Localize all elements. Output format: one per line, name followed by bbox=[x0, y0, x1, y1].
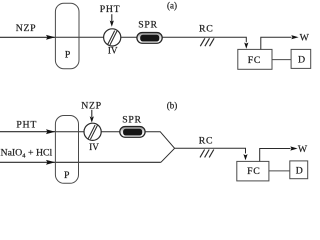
svg-text:SPR: SPR bbox=[122, 114, 142, 125]
svg-text:P: P bbox=[64, 170, 70, 181]
svg-text:SPR: SPR bbox=[138, 20, 158, 31]
pump P (a) bbox=[55, 3, 79, 69]
wire: FC to waste W (a) bbox=[261, 37, 292, 49]
detector D (b) bbox=[290, 161, 308, 179]
svg-text:PHT: PHT bbox=[100, 4, 121, 15]
svg-text:(b): (b) bbox=[167, 100, 178, 110]
wire: PHT inlet to pump P (b) bbox=[0, 131, 55, 133]
flow cell FC (b) bbox=[237, 161, 269, 181]
svg-text:IV: IV bbox=[108, 46, 118, 56]
svg-text:NaIO4 + HCl: NaIO4 + HCl bbox=[1, 148, 53, 160]
wire: NZP inlet to pump P (a) bbox=[0, 36, 55, 38]
svg-text:NZP: NZP bbox=[81, 100, 102, 111]
arrowhead into pump P (a) bbox=[46, 35, 55, 40]
wire: oxidant line to merge node (b) bbox=[161, 148, 175, 162]
svg-text:D: D bbox=[296, 166, 303, 177]
wire: FC to waste W (b) bbox=[260, 149, 291, 162]
injection valve IV (b) bbox=[84, 123, 101, 140]
svg-text:PHT: PHT bbox=[16, 119, 37, 130]
reaction coil hatch (b) bbox=[200, 150, 205, 158]
wire: NaIO4+HCl inlet to pump P (b) bbox=[0, 161, 55, 163]
solid-phase reactor SPR (b) bbox=[120, 127, 145, 138]
arrowhead into flow cell FC (a) bbox=[244, 43, 248, 49]
wire: SPR to merge node (b) bbox=[145, 132, 175, 149]
svg-text:(a): (a) bbox=[167, 1, 177, 11]
arrowhead into pump P line2 (b) bbox=[46, 160, 55, 165]
svg-text:D: D bbox=[298, 55, 305, 66]
svg-text:FC: FC bbox=[248, 55, 261, 66]
wire: oxidant line through pump (b) bbox=[55, 161, 161, 163]
arrow: PHT injection into valve IV (a) bbox=[111, 14, 113, 21]
arrowhead to waste (a) bbox=[291, 35, 298, 39]
arrowhead into pump P line1 (b) bbox=[46, 129, 55, 134]
wire: valve IV to SPR (b) bbox=[101, 131, 120, 133]
wire: FC to detector D (a) bbox=[272, 59, 291, 61]
flow cell FC (a) bbox=[238, 49, 272, 69]
injection valve IV (a) bbox=[104, 29, 121, 46]
wire: merge node to flow cell corner (b) bbox=[175, 148, 246, 153]
svg-text:RC: RC bbox=[199, 24, 213, 35]
svg-text:W: W bbox=[300, 33, 310, 44]
wire: FC to detector D (b) bbox=[269, 170, 290, 172]
arrowhead into flow cell FC (b) bbox=[243, 154, 247, 160]
arrow: NZP injection into valve IV (b) bbox=[91, 110, 93, 117]
svg-text:IV: IV bbox=[89, 142, 99, 152]
detector D (a) bbox=[291, 49, 311, 68]
svg-text:P: P bbox=[65, 49, 71, 60]
wire: through pump to valve IV (a) bbox=[55, 36, 104, 38]
svg-text:FC: FC bbox=[247, 166, 260, 177]
pump P (b) bbox=[55, 116, 78, 184]
wire: valve IV to SPR (a) bbox=[121, 36, 137, 38]
svg-text:W: W bbox=[298, 144, 308, 155]
svg-text:RC: RC bbox=[199, 136, 213, 147]
reaction coil hatch (a) bbox=[200, 38, 205, 46]
wire: SPR to flow cell corner (a) bbox=[162, 37, 246, 42]
wire: through pump to valve IV (b) bbox=[55, 131, 85, 133]
solid-phase reactor SPR (a) bbox=[137, 33, 162, 44]
svg-text:NZP: NZP bbox=[16, 23, 37, 34]
arrowhead to waste (b) bbox=[290, 146, 297, 150]
